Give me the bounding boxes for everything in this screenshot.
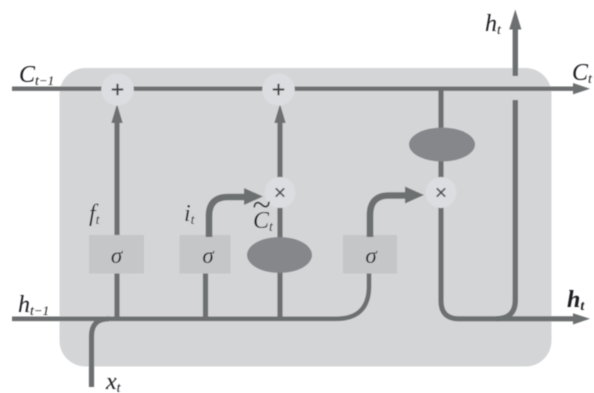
svg-text:Ct: Ct	[572, 60, 593, 87]
wire: h line left segment curving into sigma gate o	[12, 250, 369, 319]
svg-text:σ: σ	[111, 243, 124, 268]
svg-text:ht−1: ht−1	[18, 292, 49, 319]
times circle 1	[265, 177, 296, 208]
arrowhead: candidate into plus circle	[274, 104, 285, 123]
wire: x_t input curving into h line	[92, 319, 110, 387]
arrowhead: h_t right output	[573, 313, 590, 324]
times circle 2	[426, 177, 457, 208]
svg-text:xt: xt	[105, 369, 122, 393]
wire: h_t upward branch (lower part, below C line)	[496, 100, 515, 319]
svg-text:ht: ht	[485, 11, 502, 38]
curved arrow: i gate into times circle	[209, 197, 246, 237]
wire: output branch from C line down through tanh, times circle, to h_t right	[441, 89, 574, 319]
sigma gate o box	[343, 235, 397, 274]
svg-text:σ: σ	[202, 243, 215, 268]
wire: forget gate vertical f	[114, 118, 119, 319]
wire: cell state line C (top horizontal)	[12, 87, 575, 91]
plus circle 1	[101, 73, 134, 106]
svg-text:σ: σ	[365, 243, 378, 268]
cell body	[60, 68, 552, 367]
tanh ellipse candidate	[247, 237, 312, 273]
wire: candidate Ct vertical through tanh ellipse	[277, 118, 282, 319]
arrowhead: C_t output	[573, 83, 590, 94]
sigma gate i box	[180, 235, 231, 274]
wire: input gate vertical i (lower)	[203, 255, 208, 319]
plus circle 2	[262, 73, 295, 106]
arrowhead: f into plus circle	[111, 104, 122, 123]
curved arrow: o gate into times circle	[370, 196, 407, 238]
sigma gate f box	[89, 235, 144, 274]
tanh ellipse output	[409, 128, 475, 162]
svg-text:ht: ht	[567, 287, 585, 314]
wire: h_t upward branch (upper part, above C line)	[513, 27, 518, 76]
arrowhead: h_t top output	[509, 10, 521, 30]
svg-text:~: ~	[252, 187, 270, 224]
svg-text:Ct−1: Ct−1	[19, 62, 54, 89]
